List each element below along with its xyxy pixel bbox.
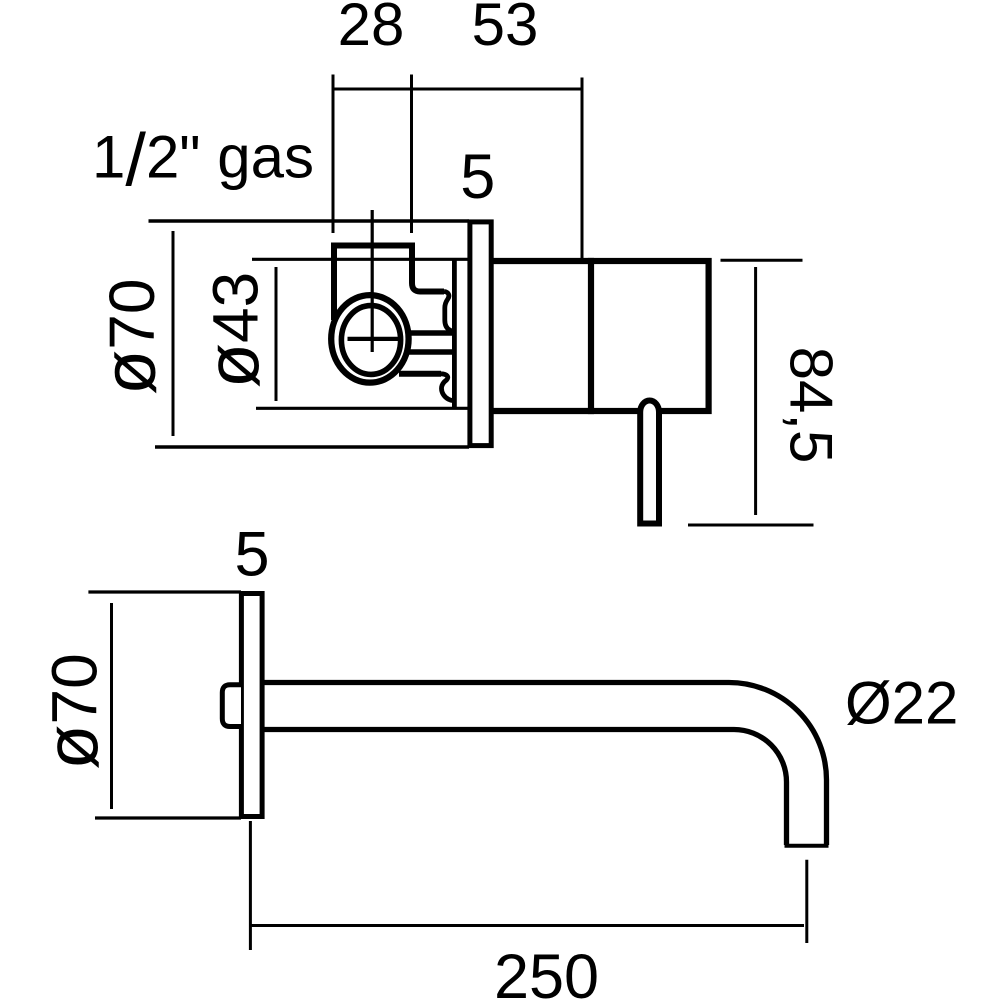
cylinder face edge at wall plate (452, 259, 457, 408)
o70 lower tick (bottom view) (95, 816, 241, 819)
svg-text:1/2" gas: 1/2" gas (92, 119, 314, 202)
svg-text:84,5: 84,5 (778, 347, 845, 464)
body section bottom edge right of plate (494, 408, 595, 414)
spout end cap (785, 844, 829, 848)
dimension line 28/53 (333, 88, 582, 91)
svg-text:5: 5 (460, 142, 495, 212)
extension line right of 53 (581, 78, 584, 262)
spout outer contour (264, 683, 827, 846)
lower collar bead between body and wall plate (441, 374, 453, 401)
crosshair horizontal (348, 337, 400, 341)
o70 upper tick (bottom view) (88, 590, 241, 593)
valve body square (in-wall housing) (334, 246, 444, 321)
upper collar bead between body and wall plate (444, 292, 455, 332)
extension line 250 left (249, 821, 252, 950)
svg-text:5: 5 (234, 519, 269, 589)
connecting tube bottom edge (406, 349, 454, 355)
svg-text:250: 250 (494, 942, 599, 1000)
mixer body outer box (591, 261, 709, 411)
extension line left of 28 (332, 75, 335, 234)
center axis vertical line (371, 210, 374, 352)
svg-text:ø70: ø70 (31, 653, 114, 769)
extension line 250 right (805, 860, 808, 943)
svg-text:ø43: ø43 (192, 272, 275, 388)
wall plate (top view) (470, 222, 491, 446)
dimension line 250 (250, 924, 804, 927)
body section top edge right of plate (494, 258, 595, 264)
svg-text:28: 28 (338, 0, 405, 58)
spout inner contour (264, 730, 787, 846)
svg-text:53: 53 (472, 0, 539, 58)
extension line between 28 and 53 (410, 75, 413, 234)
cartridge outer ring (ellipse) (331, 295, 408, 383)
extension line o43 bottom (256, 407, 470, 410)
dimension line o70 bottom view (110, 603, 113, 809)
handle lever rod (640, 401, 659, 524)
supply fitting knob behind plate (222, 685, 241, 727)
dimension line o43 (275, 267, 278, 401)
extension tick 84,5 top (721, 259, 803, 262)
svg-text:Ø22: Ø22 (845, 670, 958, 737)
wall line top (o70 upper tick) (149, 219, 470, 222)
svg-text:ø70: ø70 (88, 279, 171, 395)
dimension line 84,5 (754, 267, 757, 515)
wall plate (bottom view) (241, 594, 262, 817)
connecting tube top edge (406, 330, 454, 336)
wall line bottom (o70 lower tick) (155, 445, 469, 448)
extension line o43 top (252, 258, 470, 261)
cartridge inner ring (341, 306, 400, 375)
dimension line o70 top view (172, 231, 175, 436)
lower step of valve body (399, 371, 441, 377)
extension tick 84,5 bottom (688, 524, 814, 527)
